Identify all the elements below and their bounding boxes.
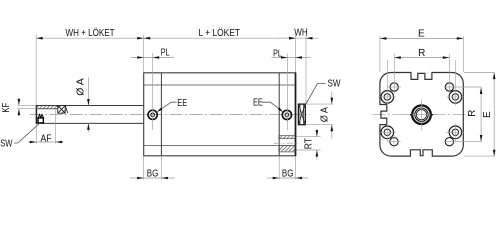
dimension RT — [316, 129, 318, 160]
svg-text:SW: SW — [328, 79, 341, 90]
dimension PL left — [131, 57, 174, 59]
thread chamfer — [65, 106, 68, 113]
mounting hole top-left — [390, 83, 398, 91]
dimension R top — [394, 57, 449, 59]
svg-text:L + LÖKET: L + LÖKET — [199, 27, 241, 39]
profile line top — [144, 84, 296, 86]
screw hole top-left — [381, 91, 394, 104]
screw hole bottom-left — [381, 126, 394, 139]
port EE right — [282, 110, 291, 119]
dimension WH right arrow — [306, 37, 313, 40]
dimension BG right — [267, 177, 308, 179]
dimension row top — [36, 37, 318, 39]
svg-text:AF: AF — [41, 134, 52, 145]
leader EE right — [262, 102, 282, 111]
cylinder body — [144, 73, 296, 156]
center boss — [412, 105, 431, 124]
mounting hole bottom-left — [390, 138, 398, 146]
svg-text:E: E — [418, 29, 425, 40]
svg-text:BG: BG — [282, 168, 294, 179]
wrench flat square — [58, 105, 65, 113]
svg-text:PL: PL — [273, 49, 282, 60]
svg-text:PL: PL — [161, 48, 170, 59]
leader SW left — [14, 123, 40, 143]
rear thread RT section lower band — [279, 146, 295, 152]
svg-text:EE: EE — [253, 98, 263, 109]
plate outline — [380, 73, 463, 157]
leader SW right — [306, 84, 326, 104]
rear thread RT section upper band — [279, 136, 295, 139]
boss center marks — [405, 100, 439, 131]
dimension L+LOKET arrows — [144, 37, 151, 40]
dimension R right — [480, 88, 482, 142]
piston rod — [36, 105, 143, 124]
svg-text:SW: SW — [0, 138, 13, 149]
mounting hole top-right — [445, 83, 453, 91]
centerline side view — [30, 114, 311, 116]
dimension KF — [18, 99, 20, 115]
plate centerline — [373, 114, 471, 116]
port EE left — [148, 110, 157, 119]
svg-text:Ø A: Ø A — [319, 107, 330, 122]
extension lines side view — [17, 35, 333, 180]
dimension PL right — [272, 57, 311, 59]
svg-text:Ø A: Ø A — [75, 78, 86, 96]
svg-text:R: R — [418, 48, 425, 59]
end cap line left — [160, 73, 162, 156]
dimension E right — [493, 73, 495, 157]
leader EE left — [158, 102, 176, 111]
RT axis centerline — [274, 142, 300, 144]
dimension E top — [380, 37, 463, 39]
svg-text:E: E — [482, 111, 493, 118]
svg-text:RT: RT — [303, 138, 314, 149]
svg-text:WH: WH — [294, 27, 308, 38]
screw hole top-right — [449, 91, 462, 104]
extension lines end view — [380, 36, 495, 156]
dimension OA left — [87, 77, 89, 132]
svg-text:WH + LÖKET: WH + LÖKET — [66, 27, 115, 39]
profile line bottom — [144, 145, 296, 147]
svg-text:R: R — [467, 110, 478, 117]
rear stub SW — [298, 104, 305, 125]
svg-text:KF: KF — [1, 103, 12, 113]
screw hole bottom-right — [449, 126, 462, 139]
dimension AF — [28, 141, 64, 143]
dimension OA right — [331, 92, 333, 139]
svg-text:EE: EE — [177, 98, 187, 109]
dimension WH+LOKET arrows — [36, 37, 43, 40]
hole center marks — [379, 60, 465, 149]
rod thread band — [36, 105, 57, 108]
mounting hole bottom-right — [445, 138, 453, 146]
female thread symbol — [38, 115, 43, 123]
end cap line right — [278, 73, 280, 156]
svg-text:BG: BG — [147, 168, 159, 179]
dimension WH right — [278, 37, 296, 39]
dimension BG left — [130, 177, 175, 179]
